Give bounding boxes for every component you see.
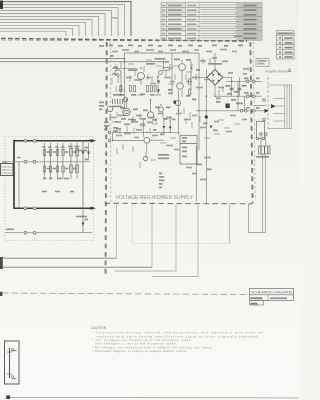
svg-text:VOLTAGE REG./POWER SUPPLY: VOLTAGE REG./POWER SUPPLY [116,195,194,201]
svg-text:SCHEMATIC DIAGRAM: SCHEMATIC DIAGRAM [251,290,292,294]
svg-text:CAUTION: CAUTION [91,326,107,330]
svg-text:POWER TRANS: POWER TRANS [266,70,288,74]
svg-text:* Schematic diagram is subject: * Schematic diagram is subject to change… [92,349,187,353]
